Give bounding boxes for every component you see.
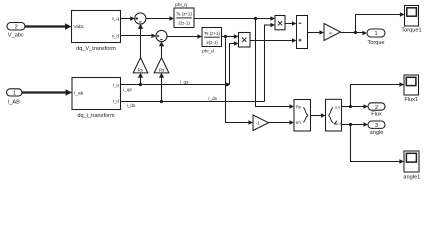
svg-text:-K-: -K- [328, 31, 334, 35]
svg-text:Ts (z+1): Ts (z+1) [204, 31, 220, 36]
svg-text:I_q: I_q [113, 83, 120, 88]
svg-text:i_qs: i_qs [180, 80, 189, 85]
svg-text:i_ds: i_ds [208, 96, 217, 101]
svg-text:2: 2 [15, 24, 18, 30]
svg-text:V_abc: V_abc [8, 33, 24, 39]
svg-text:2(z-1): 2(z-1) [178, 21, 190, 26]
svg-text:u: u [338, 120, 340, 125]
svg-text:Rs: Rs [138, 68, 144, 73]
svg-text:Vabc: Vabc [74, 24, 85, 30]
svg-text:phi_d: phi_d [202, 49, 214, 54]
svg-text:I_d: I_d [113, 99, 120, 104]
svg-text:2: 2 [375, 105, 378, 111]
svg-text:2(z-1): 2(z-1) [206, 40, 218, 45]
svg-text:Flux: Flux [371, 112, 382, 118]
svg-text:Torque: Torque [367, 40, 384, 46]
svg-text:I_ab: I_ab [74, 90, 84, 96]
svg-text:-1: -1 [256, 121, 260, 126]
svg-text:i_ds: i_ds [127, 103, 136, 108]
svg-text:v_q: v_q [112, 16, 120, 21]
svg-text:Re: Re [296, 105, 302, 110]
svg-text:1: 1 [374, 31, 377, 37]
svg-text:v_d: v_d [112, 33, 120, 38]
svg-text:3: 3 [375, 123, 378, 129]
svg-text:1: 1 [13, 91, 16, 97]
svg-text:dq_i_transform: dq_i_transform [77, 113, 115, 119]
svg-text:phi_q: phi_q [175, 2, 187, 7]
svg-text:angle1: angle1 [403, 174, 420, 180]
svg-text:Rs: Rs [159, 68, 165, 73]
svg-text:Im: Im [296, 120, 301, 125]
svg-text:Flux1: Flux1 [404, 97, 418, 103]
svg-text:|u|: |u| [335, 105, 339, 110]
svg-text:Torque1: Torque1 [401, 28, 421, 34]
svg-text:dq_V_transform: dq_V_transform [76, 46, 116, 52]
svg-text:i_qs: i_qs [123, 87, 132, 92]
svg-text:angle: angle [370, 130, 384, 136]
svg-text:Ts (z+1): Ts (z+1) [176, 12, 192, 17]
svg-text:I_AB: I_AB [8, 99, 20, 105]
